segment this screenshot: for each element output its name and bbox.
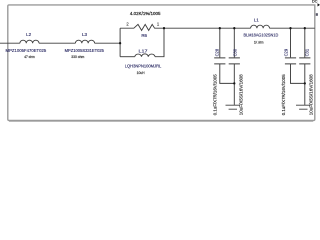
svg-text:0.1uF/X7R/16V/1005: 0.1uF/X7R/16V/1005 [213, 74, 218, 115]
wire: L17 bottom branch left lead [120, 56, 135, 58]
inductor L2 [20, 40, 39, 43]
wire: main rail from L1 to right border [270, 27, 315, 29]
node: C28 tap on rail [219, 27, 221, 29]
wire: C28 bottom lead with jog to C30 [220, 64, 235, 84]
wire: left input wire at y=43.2 [0, 42, 20, 44]
svg-text:L3: L3 [82, 32, 88, 37]
wire: main rail from block to L1 [164, 27, 251, 29]
svg-text:1K ohm: 1K ohm [254, 40, 264, 44]
svg-text:C31: C31 [305, 48, 310, 56]
wire: C28 top lead [219, 28, 221, 57]
svg-text:C28: C28 [215, 48, 220, 56]
svg-text:BLM18AG102SN1D: BLM18AG102SN1D [244, 33, 279, 38]
capacitor C31 plates [299, 58, 310, 64]
svg-text:LQH3NPN100MJRL: LQH3NPN100MJRL [125, 64, 162, 69]
svg-text:C29: C29 [283, 48, 288, 56]
inductor L3 [75, 40, 94, 43]
node: junction at block left [119, 42, 121, 44]
svg-text:R6: R6 [141, 33, 147, 38]
capacitor C29 plates [285, 58, 296, 64]
svg-text:L1: L1 [254, 18, 260, 23]
wire: L2 to L3 [39, 42, 75, 44]
node: DC off-page arrow [318, 3, 320, 6]
node: C29 tap on rail [289, 27, 291, 29]
node: junction at block right [163, 27, 165, 29]
svg-text:MPZ1005F470ET025: MPZ1005F470ET025 [6, 48, 47, 53]
svg-text:L2: L2 [26, 32, 32, 37]
capacitor C30 plates [229, 58, 240, 64]
wire: left vertical of R6/L17 parallel block [119, 28, 121, 57]
svg-text:330 ohm: 330 ohm [71, 55, 84, 59]
ferrite bead L1 [251, 25, 270, 28]
wire: C29 top lead [290, 28, 292, 57]
svg-text:10uF/X5S/16V/1608: 10uF/X5S/16V/1608 [308, 74, 313, 116]
svg-text:DC: DC [312, 0, 318, 4]
svg-text:L17: L17 [139, 49, 149, 54]
svg-text:10uF/X5S/16V/1608: 10uF/X5S/16V/1608 [238, 74, 243, 116]
ground (C29/C31) [296, 105, 311, 109]
wire: L17 right lead and right vertical of block [155, 28, 164, 57]
page border bottom edge (thicker) [9, 120, 313, 122]
node: C28/C30 ground join [233, 82, 235, 84]
node: C29/C31 ground join [304, 82, 306, 84]
svg-text:C30: C30 [233, 48, 238, 56]
wire: L3 to left node of R6/L17 block [95, 42, 121, 44]
node: C30 tap on rail [233, 27, 235, 29]
svg-text:47 ohm: 47 ohm [24, 55, 34, 59]
inductor L17 [135, 54, 155, 57]
svg-text:MPZ1005S331ET025: MPZ1005S331ET025 [65, 48, 105, 53]
wire: C30 top lead [233, 28, 235, 57]
svg-text:4.02K/1%/1005: 4.02K/1%/1005 [130, 11, 161, 16]
resistor R6 [120, 24, 164, 30]
wire: C30 bottom lead to ground [233, 64, 235, 105]
svg-text:0.1uF/X7R/16V/1005: 0.1uF/X7R/16V/1005 [281, 74, 286, 115]
svg-text:10uH: 10uH [137, 71, 145, 75]
node: C31 tap on rail [304, 27, 306, 29]
wire: C29 bottom lead with jog to C31 [291, 64, 305, 84]
capacitor C28 plates [214, 58, 225, 64]
wire: C31 top lead [304, 28, 306, 57]
ground (C28/C30) [226, 105, 241, 109]
wire: C31 bottom lead to ground [304, 64, 306, 105]
page border frame [8, 5, 315, 121]
wire: top-right net stub text smudge [316, 13, 318, 16]
